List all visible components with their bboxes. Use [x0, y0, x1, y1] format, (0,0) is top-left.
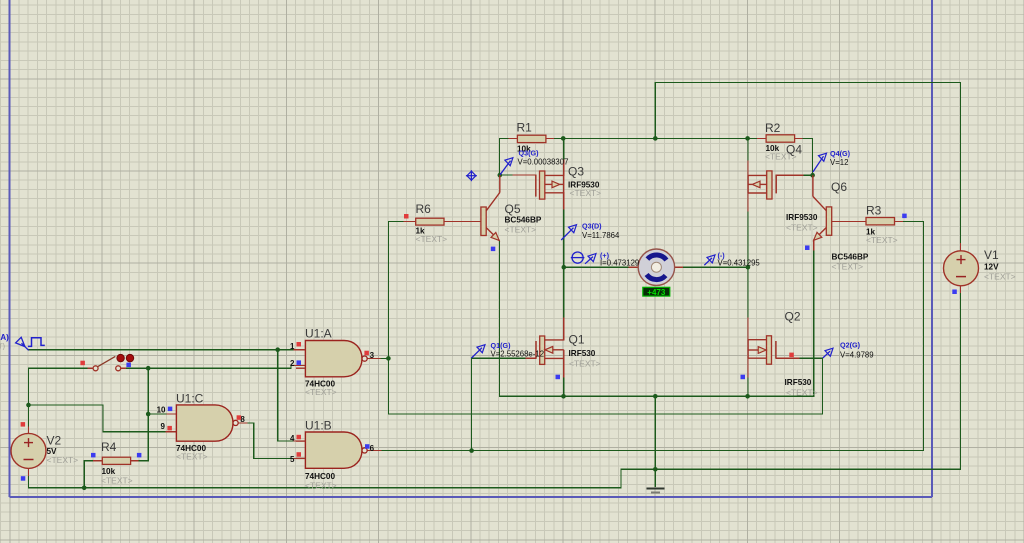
Q2 gate state: [789, 353, 794, 358]
wire Q4 source pin stub: [747, 160, 749, 175]
switch SW1: [93, 354, 134, 370]
wire +12V rail: [555, 137, 758, 139]
svg-text:R1: R1: [517, 120, 533, 134]
V2 top state: [21, 422, 26, 427]
wire Q4 gate: [803, 174, 812, 176]
svg-text:IRF530: IRF530: [785, 378, 812, 387]
svg-text:V2: V2: [47, 434, 62, 448]
wire Q1 gate pin stub: [526, 357, 536, 359]
wire U1:B output stub: [367, 450, 381, 452]
transistor Q6 BC546BP: [813, 175, 869, 271]
resistor R2: [765, 121, 797, 162]
svg-text:BC546BP: BC546BP: [505, 216, 542, 225]
wire V2 bottom pin stub: [28, 469, 30, 477]
svg-text:<TEXT>: <TEXT>: [305, 481, 337, 491]
svg-text:Q4: Q4: [786, 142, 802, 156]
wire pin1 node down to U1:B pin4: [278, 350, 294, 441]
wire Q2 gate feed from U1:A: [388, 358, 822, 414]
wire motor-right node to Q2 drain: [747, 267, 749, 318]
svg-text:U1:B: U1:B: [305, 419, 332, 433]
node V2 plus junction: [26, 403, 31, 408]
V2 bottom state: [21, 476, 26, 481]
probe Q3(D): [561, 222, 620, 240]
origin marker: [466, 170, 477, 181]
wire switch row left: [29, 368, 89, 427]
svg-text:<TEXT>: <TEXT>: [47, 455, 79, 465]
wire V1 bottom to ground run: [29, 294, 961, 488]
svg-text:Q5: Q5: [505, 202, 521, 216]
svg-text:I=0.473129: I=0.473129: [600, 258, 639, 267]
svg-text:V=4.9789: V=4.9789: [840, 350, 874, 359]
svg-text:2: 2: [290, 359, 295, 368]
svg-text:V=0.431295: V=0.431295: [718, 258, 761, 267]
transistor Q1 IRF530: [536, 333, 601, 369]
pin2 state: [297, 360, 302, 365]
svg-text:10: 10: [157, 406, 166, 415]
logic state squares: [21, 214, 957, 481]
wire Q4 gate pin stub: [776, 174, 803, 176]
svg-text:IRF9530: IRF9530: [786, 213, 818, 222]
node switch right junction: [146, 366, 151, 371]
svg-text:3: 3: [370, 351, 375, 360]
node Q1 source rail junction: [561, 394, 566, 399]
probe motor minus: [704, 251, 760, 268]
Q1 source state: [556, 375, 561, 380]
wire Q4 drain pin stub: [747, 193, 749, 212]
wire motor to motor-right node: [683, 266, 748, 268]
svg-text:<TEXT>: <TEXT>: [570, 188, 602, 198]
svg-text:BC546BP: BC546BP: [832, 253, 869, 262]
battery V2: [11, 433, 78, 468]
motor rpm readout: [643, 287, 670, 297]
node R4 ground junction: [82, 486, 87, 491]
wire Q3 drain pin stub: [563, 193, 565, 210]
wire U1:A pin1 stub: [294, 349, 305, 351]
wire motor-left node to motor: [564, 266, 629, 268]
node B Q4 gate junction: [810, 173, 815, 178]
pin8 state: [237, 415, 242, 420]
node A Q3 gate junction: [498, 173, 503, 178]
wire V2 plus to U1:C pin9: [29, 405, 167, 432]
wire R6 left pin stub: [404, 221, 416, 223]
op-amp U1:B nand gate: [290, 419, 375, 491]
svg-text:V1: V1: [984, 248, 999, 262]
svg-text:V=0.00038307: V=0.00038307: [518, 157, 569, 166]
pin1 state: [297, 342, 302, 347]
svg-text:<TEXT>: <TEXT>: [416, 234, 448, 244]
transistor Q2 IRF530: [748, 310, 818, 398]
svg-text:Q6: Q6: [831, 180, 847, 194]
probe Q3(G): [500, 149, 568, 175]
wire U1:B out up to Q1 gate: [472, 358, 526, 450]
pin4 state: [297, 435, 302, 440]
node U1:A output junction: [386, 356, 391, 361]
node rail riser junction: [653, 136, 658, 141]
wire switch right to U1:A pin2: [127, 365, 291, 368]
wire U1:B pin5 stub: [294, 457, 305, 459]
resistor R1: [517, 120, 546, 153]
svg-text:Q4(G): Q4(G): [830, 149, 851, 158]
wire Q6 emitter pin stub: [813, 241, 815, 251]
svg-text:<TEXT>: <TEXT>: [866, 235, 898, 245]
resistor R4: [101, 440, 133, 485]
wire R1 left to node A: [500, 138, 510, 175]
svg-text:<TEXT>: <TEXT>: [505, 225, 537, 235]
pin6 state: [365, 444, 370, 449]
wire switch node down to pin10 and R4: [147, 368, 149, 461]
svg-text:5: 5: [290, 455, 295, 464]
R6 pin state: [404, 214, 409, 219]
svg-text:<TEXT>: <TEXT>: [984, 272, 1016, 282]
R3 pin state: [902, 214, 907, 219]
svg-text:Q3: Q3: [568, 165, 584, 179]
R4 right pin state: [137, 453, 142, 458]
svg-text:1: 1: [290, 342, 295, 351]
motor: [638, 249, 674, 285]
generator input: [0, 333, 45, 351]
battery V1: [944, 248, 1016, 286]
svg-text:R6: R6: [416, 202, 432, 216]
svg-text:R4: R4: [101, 440, 117, 454]
resistor R6: [416, 202, 448, 244]
svg-text:V=12: V=12: [830, 158, 848, 167]
svg-text:<TEXT>: <TEXT>: [305, 387, 337, 397]
wire Q6 emitter drop to rail: [813, 250, 815, 396]
wire R1 left pin stub: [509, 137, 517, 139]
wire R4 left pin stub: [94, 460, 103, 462]
svg-text:<TEXT>: <TEXT>: [786, 388, 818, 398]
wire R6 right to Q5 base: [444, 221, 481, 223]
wire U1:A pin2 stub: [291, 364, 305, 366]
wire U1:B pin4 stub: [294, 440, 305, 442]
wire Q2 source pin stub: [747, 358, 749, 378]
ground: [646, 488, 664, 492]
wire R2 left pin stub: [757, 137, 766, 139]
wire Q2 drain pin stub: [747, 318, 749, 340]
wire R1 right pin stub: [546, 137, 555, 139]
switch left state: [80, 361, 85, 366]
wire motor left pin stub: [629, 266, 638, 268]
svg-text:R2: R2: [765, 121, 781, 135]
V1 bottom state: [952, 290, 957, 295]
wire Q1 drain riser: [563, 267, 565, 318]
svg-text:8: 8: [240, 415, 245, 424]
svg-text:12V: 12V: [984, 263, 999, 272]
wire U1:C output: [248, 423, 294, 459]
svg-text:9: 9: [161, 422, 166, 431]
wire R4 right riser: [139, 368, 148, 461]
node ground rail junction: [653, 394, 658, 399]
svg-text:(T): (T): [0, 344, 5, 351]
svg-text:+473: +473: [647, 288, 666, 297]
wire generator row: [29, 349, 294, 351]
Q2 source state: [741, 375, 746, 380]
wire Q2 source to rail: [747, 378, 749, 396]
wire R2 right pin stub: [795, 137, 803, 139]
wire Q4 source riser: [747, 138, 749, 160]
wire ground rail: [499, 241, 813, 396]
wire Q3 gate to node A: [500, 174, 512, 176]
wire U1:A output: [381, 358, 388, 360]
probe Q2(G): [823, 341, 874, 360]
wire V2 top pin stub: [28, 427, 30, 433]
pin10 state: [168, 407, 173, 412]
wire pin10 to riser: [148, 413, 166, 415]
svg-text:V=11.7864: V=11.7864: [582, 231, 620, 240]
switch right state: [126, 363, 130, 368]
svg-text:4: 4: [290, 434, 295, 443]
wire V1 top pin stub: [960, 244, 962, 252]
wire R3 right pin stub: [895, 221, 904, 223]
wire Q3 gate pin stub: [512, 174, 536, 176]
wire top rail: [655, 83, 960, 244]
Q6 emitter state: [805, 246, 810, 251]
wire R2 right down to node B: [803, 138, 812, 175]
node Q4 source rail junction: [745, 136, 750, 141]
wire Q2 gate pin stub: [776, 357, 800, 359]
svg-text:XA): XA): [0, 333, 9, 342]
wire R4 left to ground line: [84, 461, 93, 488]
svg-text:V=2.55268e-12: V=2.55268e-12: [491, 349, 545, 358]
wire Q1 source pin stub: [563, 358, 565, 378]
op-amp U1:A nand gate: [290, 327, 375, 397]
wire V1 bottom pin stub: [960, 286, 962, 294]
svg-text:<TEXT>: <TEXT>: [786, 223, 818, 233]
transistor Q3 IRF9530: [536, 165, 601, 200]
svg-text:<TEXT>: <TEXT>: [101, 475, 133, 485]
svg-text:Q2: Q2: [785, 310, 801, 324]
wire V2 bottom down: [28, 477, 30, 488]
svg-text:<TEXT>: <TEXT>: [176, 452, 208, 462]
node pin10 junction: [146, 412, 151, 417]
node pin1 junction: [275, 347, 280, 352]
node motor right junction: [746, 265, 751, 270]
pin9 state: [167, 426, 172, 431]
svg-text:6: 6: [370, 444, 375, 453]
resistor R3: [866, 203, 898, 245]
svg-text:Q3(D): Q3(D): [582, 222, 602, 231]
svg-text:U1:A: U1:A: [305, 327, 332, 341]
svg-text:Q3(G): Q3(G): [519, 149, 540, 158]
Q5 emitter state: [491, 247, 496, 252]
wire Q3 drain to motor-left node: [563, 210, 565, 267]
wire R3 right down to U1:B out line: [381, 222, 924, 451]
wire U1:C pin10 stub: [166, 413, 176, 415]
probe Q4(G): [813, 149, 851, 172]
R4 left pin state: [91, 453, 96, 458]
wire Q1 drain pin stub: [563, 318, 565, 340]
wire Q6 base to R3: [832, 221, 866, 223]
probe Q1(G): [472, 341, 545, 358]
svg-text:Q1: Q1: [569, 333, 585, 347]
wire switch left contact stub: [88, 367, 92, 369]
svg-text:R3: R3: [866, 203, 882, 217]
svg-text:<TEXT>: <TEXT>: [832, 262, 864, 272]
op-amp U1:C nand gate: [157, 391, 246, 461]
node motor left junction: [562, 265, 567, 270]
transistor Q4 IRF9530: [748, 142, 818, 232]
wire Q1 source to rail: [563, 378, 565, 396]
wire motor right pin stub: [675, 266, 684, 268]
svg-text:U1:C: U1:C: [176, 391, 204, 405]
wire Q3 source pin stub: [563, 160, 565, 175]
node R1-right rail junction: [561, 136, 566, 141]
transistor Q5 BC546BP: [481, 175, 542, 241]
svg-text:<TEXT>: <TEXT>: [569, 359, 601, 369]
wire Q3 source riser: [563, 138, 565, 160]
svg-text:IRF530: IRF530: [569, 349, 596, 358]
wire node U1:A out up to R6: [388, 222, 404, 359]
wire Q4 drain to motor-right node: [747, 212, 749, 267]
wire U1:C output: [238, 422, 248, 424]
node ground line junction: [653, 467, 658, 472]
wire U1:C pin9 stub: [166, 431, 176, 433]
wire ground drop: [654, 396, 656, 486]
current probe: [571, 251, 639, 268]
wire R4 right pin stub: [131, 460, 140, 462]
wire switch right contact stub: [121, 367, 127, 369]
node U1:B output junction: [469, 448, 474, 453]
wire rail to top rail riser: [654, 83, 656, 139]
node Q2 source rail junction: [745, 394, 750, 399]
svg-text:74HC00: 74HC00: [305, 472, 335, 481]
svg-text:Q2(G): Q2(G): [840, 341, 861, 350]
pin5 state: [297, 452, 302, 457]
pin3 state: [364, 351, 369, 356]
wire U1:A output stub: [367, 358, 381, 360]
